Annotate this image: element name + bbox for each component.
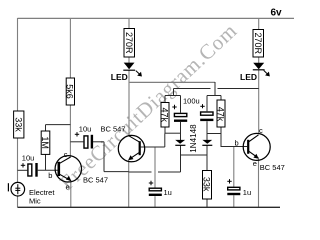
svg-text:5k6: 5k6 — [65, 84, 75, 99]
svg-text:c: c — [259, 126, 263, 135]
svg-text:10u: 10u — [22, 153, 35, 162]
svg-text:1M: 1M — [40, 136, 50, 149]
svg-text:LED: LED — [111, 72, 128, 82]
svg-text:e: e — [253, 159, 257, 168]
svg-text:33k: 33k — [13, 117, 23, 132]
svg-text:1N4148: 1N4148 — [189, 124, 198, 153]
svg-text:BC 547: BC 547 — [101, 125, 126, 134]
svg-text:LED: LED — [240, 72, 257, 82]
svg-text:BC 547: BC 547 — [83, 175, 108, 184]
svg-text:33k: 33k — [201, 177, 211, 192]
svg-text:b: b — [48, 171, 52, 180]
svg-text:100u: 100u — [183, 97, 200, 106]
svg-text:270R: 270R — [253, 33, 263, 55]
svg-text:47k: 47k — [160, 108, 170, 123]
svg-text:1u: 1u — [164, 188, 172, 197]
svg-text:47k: 47k — [216, 107, 226, 122]
svg-text:270R: 270R — [124, 32, 134, 54]
svg-text:BC 547: BC 547 — [260, 163, 285, 172]
svg-text:6v: 6v — [271, 8, 283, 19]
svg-text:b: b — [235, 138, 239, 147]
svg-text:10u: 10u — [79, 125, 92, 134]
svg-text:1u: 1u — [243, 188, 251, 197]
svg-text:c: c — [64, 150, 68, 159]
svg-text:Mic: Mic — [29, 196, 41, 205]
svg-text:e: e — [66, 183, 70, 192]
